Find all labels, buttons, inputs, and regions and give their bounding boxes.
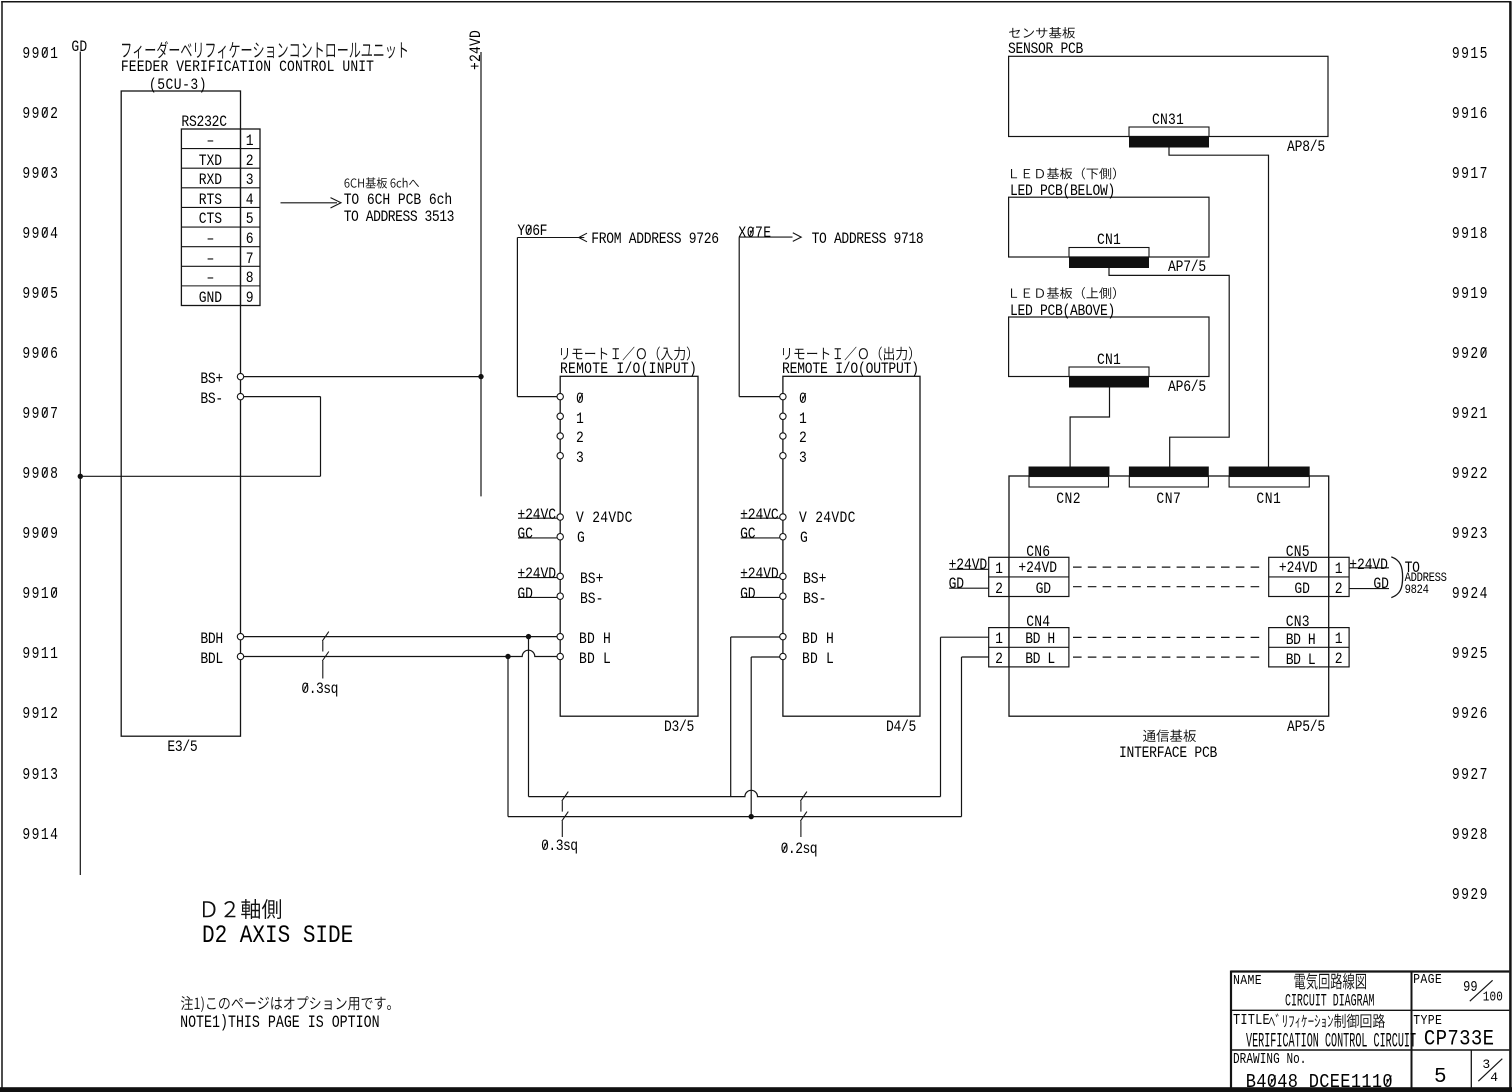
connector label CN1 below	[1097, 232, 1121, 248]
wire gauge mark 0.2sq bottom	[800, 792, 807, 837]
connector label CN2	[1056, 491, 1081, 507]
wire gauge label 0.2sq bottom	[781, 841, 818, 857]
pin label BD L D3/5	[579, 651, 611, 667]
pin +24VD circle D3/5	[557, 573, 563, 579]
connector CN4 table	[989, 628, 1069, 667]
node address 9927	[1452, 766, 1489, 783]
wire underline +24VC D4/5	[741, 517, 780, 519]
connector CN31 white	[1129, 127, 1209, 137]
title block left edge	[1230, 971, 1232, 1088]
wire 9908 horizontal GD to BS-	[80, 475, 320, 477]
node address 9904	[22, 225, 59, 242]
wire CN1 above to CN2	[1070, 388, 1109, 467]
title block row divider 1	[1231, 1009, 1509, 1011]
connector CN5 table	[1269, 557, 1349, 596]
page border right edge	[1509, 1, 1512, 1092]
wire BD H bus line	[529, 790, 941, 796]
node address 9918	[1452, 225, 1489, 242]
sheet number slash 3/4	[1478, 1059, 1502, 1082]
connector CN2 white	[1029, 477, 1109, 488]
junction BDH	[526, 634, 531, 639]
text TO	[1405, 560, 1420, 576]
dashed wire +24VD CN6-CN5	[1073, 566, 1264, 568]
RS232C pin number 8	[246, 270, 254, 286]
text note 1 this page is option (Japanese)	[181, 996, 391, 1012]
page border left edge	[1, 1, 3, 1092]
sensor PCB box	[1009, 56, 1328, 136]
text LED PCB(ABOVE)	[1010, 303, 1115, 319]
pin 0 circle D3/5	[557, 393, 563, 399]
connector CN2 black	[1029, 467, 1110, 477]
RS232C row line 8	[181, 285, 260, 287]
text 9824	[1405, 584, 1429, 597]
pin label 2 of D3/5	[576, 430, 584, 446]
text feeder verification control unit (Japanese)	[122, 41, 407, 59]
wire gauge label 0.3sq	[301, 681, 338, 697]
page border top edge	[1, 1, 1511, 3]
text TO 6CH PCB 6ch	[344, 192, 452, 208]
wire Y06F horizontal	[517, 237, 584, 239]
arrowhead from address 9726	[579, 233, 587, 242]
connector CN3 table	[1269, 628, 1349, 667]
text SENSOR PCB	[1008, 41, 1083, 57]
CN3 pin 1 name BD H	[1286, 632, 1316, 648]
title block text TITLE	[1233, 1013, 1270, 1028]
text LED PCB below (Japanese)	[1011, 168, 1116, 180]
CN6 pin 2 name GD	[1036, 581, 1051, 597]
node address 9929	[1452, 886, 1489, 903]
slashed zero in 9901	[43, 47, 48, 56]
pin label BS+ D3/5	[580, 571, 603, 587]
net label GD at D3/5	[517, 586, 532, 602]
net label +24VD at D3/5	[517, 566, 556, 582]
pin label BD H D3/5	[579, 631, 611, 647]
RS232C pin name CTS row 5	[199, 211, 222, 227]
CN4 row divider	[989, 646, 1069, 648]
node address 9901	[22, 45, 59, 62]
node address 9911	[22, 645, 59, 662]
connector CN1 below white	[1069, 248, 1149, 258]
interface PCB box AP5/5	[1009, 476, 1329, 716]
RS232C pin number 4	[246, 192, 254, 208]
RS232C row line 1	[181, 148, 260, 150]
page number slash 99/100	[1470, 980, 1493, 1001]
wire BD L D4/5 drop	[750, 657, 752, 817]
net label GC at D4/5	[740, 526, 755, 542]
CN6 column divider	[1008, 557, 1010, 596]
slashed zero in DCEE1110	[1385, 1076, 1391, 1086]
connector CN7 black	[1129, 467, 1209, 477]
connector CN7 white	[1129, 477, 1208, 488]
node address 9922	[1452, 465, 1489, 482]
slashed zero in 0.2sq bottom	[783, 844, 787, 853]
junction BS+ +24VD	[478, 374, 483, 379]
node address 9913	[22, 766, 59, 783]
box label AP8/5	[1287, 139, 1325, 155]
remote I/O input box D3/5	[560, 376, 698, 716]
CN4 pin 2 number	[995, 651, 1003, 667]
page border bottom bar	[0, 1087, 1512, 1092]
slashed zero in 9910	[52, 588, 57, 597]
box label AP6/5	[1168, 379, 1206, 395]
slashed zero in 9905	[43, 287, 48, 296]
net label X07E	[738, 225, 771, 241]
RS232C pin number 7	[246, 251, 254, 267]
wire underline GD D4/5	[741, 596, 780, 598]
RS232C row line 4	[181, 206, 260, 208]
title block text CIRCUIT DIAGRAM	[1285, 993, 1375, 1011]
CN4 pin 1 name BD H	[1025, 631, 1055, 647]
node address 9909	[22, 525, 59, 542]
node address 9917	[1452, 165, 1489, 182]
CN3 row divider	[1269, 646, 1349, 648]
text LED PCB above (Japanese)	[1011, 287, 1116, 299]
pin BS- on E3/5	[237, 393, 243, 399]
slashed zero pin 0 D3/5	[578, 393, 582, 402]
RS232C pin name – row 8	[207, 270, 215, 286]
pin label BDH	[200, 631, 223, 647]
connector label CN5	[1286, 544, 1310, 560]
pin GD circle D4/5	[780, 593, 786, 599]
arrow line to 6CH PCB	[281, 202, 338, 204]
RS232C row line 7	[181, 265, 260, 267]
node address 9926	[1452, 705, 1489, 722]
node address 9923	[1452, 525, 1489, 542]
title block text NAME	[1233, 974, 1262, 988]
pin +24VC circle D4/5	[780, 514, 786, 520]
wire BS- vertical	[320, 397, 322, 477]
wire Y06F vertical	[516, 238, 518, 397]
connector label CN1 interface	[1256, 491, 1281, 507]
title block text DRAWING No.	[1233, 1054, 1307, 1068]
CN5 column divider	[1328, 557, 1330, 596]
slashed zero in 9907	[43, 408, 48, 417]
wire underline GC D3/5	[518, 537, 557, 539]
RS232C pin name – row 6	[207, 231, 215, 247]
pin label BS- D4/5	[803, 591, 826, 607]
pin label G	[577, 530, 585, 546]
title block row divider 2	[1231, 1049, 1509, 1051]
wire underline +24VD D4/5	[741, 577, 780, 579]
title block text TYPE	[1413, 1014, 1442, 1028]
node address 9928	[1452, 826, 1489, 843]
wire CN1 below to CN7	[1109, 268, 1229, 467]
CN5 row divider	[1269, 576, 1349, 578]
slashed zero pin 0 D4/5	[801, 393, 805, 402]
net label GD at D4/5	[740, 586, 755, 602]
title block sheet divider	[1470, 1050, 1472, 1088]
RS232C row line 2	[181, 167, 260, 169]
LED PCB above box	[1009, 317, 1209, 377]
CN3 column divider	[1328, 628, 1330, 667]
dashed wire BD L CN4-CN3	[1073, 656, 1264, 658]
net label GC at D3/5	[517, 526, 532, 542]
text NOTE1)THIS PAGE IS OPTION	[180, 1014, 380, 1031]
pin label 1 of D4/5	[799, 411, 807, 427]
net label +24VD vertical	[468, 29, 484, 69]
connector CN1 white	[1229, 477, 1309, 488]
pin BDH on E3/5	[237, 633, 243, 639]
connector label CN3	[1286, 614, 1310, 630]
pin GC circle D4/5	[780, 534, 786, 540]
wire BDH drop	[528, 637, 530, 797]
wire underline GD D3/5	[518, 596, 557, 598]
net label +24VC at D3/5	[517, 507, 556, 523]
RS232C table divider	[240, 129, 242, 306]
wire BD H D4/5 stub	[731, 636, 780, 638]
text D2 AXIS SIDE	[202, 924, 353, 949]
wire Y06F to pin0	[517, 396, 557, 398]
pin 2 circle D4/5	[780, 433, 786, 439]
pin BS+ on E3/5	[237, 373, 243, 379]
box label AP7/5	[1168, 259, 1206, 275]
wire BD H D4/5 drop	[730, 637, 732, 797]
box label D4/5	[886, 719, 916, 735]
wire +24VD into CN6 pin1	[949, 568, 989, 570]
title block sheet number 5	[1434, 1067, 1447, 1088]
text remote I/O input (Japanese)	[561, 347, 690, 361]
connector CN31 black	[1129, 137, 1209, 148]
slashed zero in 9903	[43, 167, 48, 176]
pin 1 circle D4/5	[780, 413, 786, 419]
wire BDL drop	[507, 657, 509, 817]
wire GD out of CN5 pin2	[1349, 588, 1389, 590]
connector label CN7	[1156, 491, 1181, 507]
wire underline GC D4/5	[741, 537, 780, 539]
LED PCB below box	[1009, 197, 1209, 257]
pin label BS- D3/5	[580, 591, 603, 607]
wire X07E horizontal	[739, 236, 792, 238]
text TO ADDRESS 9718	[812, 231, 924, 247]
pin GD circle D3/5	[557, 593, 563, 599]
text LED PCB(BELOW)	[1010, 183, 1115, 199]
slashed zero in 9908	[43, 468, 48, 477]
text INTERFACE PCB	[1119, 745, 1217, 761]
arrowhead to 6CH PCB	[331, 198, 342, 208]
connector label CN6	[1026, 544, 1050, 560]
pin 3 circle D3/5	[557, 453, 563, 459]
pin label V 24VDC	[576, 510, 633, 526]
pin 0 circle D4/5	[780, 393, 786, 399]
connector CN1 above white	[1069, 367, 1149, 377]
node address 9912	[22, 705, 59, 722]
text 6CH PCB 6ch (Japanese)	[345, 177, 420, 188]
slashed zero in 9906	[43, 347, 48, 356]
RS232C pin number 5	[246, 211, 254, 227]
RS232C pin number 6	[246, 231, 254, 247]
CN5 pin 1 number	[1335, 561, 1343, 577]
CN4 pin 2 name BD L	[1025, 651, 1055, 667]
text REMOTE I/O(INPUT)	[560, 361, 697, 377]
title block drawing number B4048 DCEE1110	[1246, 1073, 1393, 1092]
RS232C row line 5	[181, 226, 260, 228]
connector CN6 table	[989, 557, 1069, 596]
title block sheet 4	[1490, 1071, 1498, 1084]
CN4 column divider	[1008, 628, 1010, 667]
wire BD L riser to CN4	[961, 657, 963, 817]
wire CN31 to CN1 interface	[1169, 148, 1269, 467]
pin label 1 of D3/5	[576, 411, 584, 427]
RS232C pin name GND row 9	[199, 290, 222, 306]
pin label 3 of D3/5	[576, 450, 584, 466]
dashed wire BD H CN4-CN3	[1073, 636, 1264, 638]
node address 9906	[22, 345, 59, 362]
RS232C pin name – row 1	[207, 133, 215, 149]
node address 9902	[22, 105, 59, 122]
pin label 0 of D4/5	[799, 391, 807, 407]
title block circuit diagram (Japanese)	[1295, 973, 1367, 990]
slashed zero in B4048	[1270, 1076, 1276, 1086]
pin 1 circle D3/5	[557, 413, 563, 419]
wire underline +24VD D3/5	[518, 577, 557, 579]
text TO ADDRESS 3513	[344, 209, 454, 225]
arrowhead to address 9718	[793, 233, 801, 242]
title block text PAGE	[1413, 973, 1442, 987]
wire gauge mark 0.3sq	[322, 632, 329, 679]
junction GD at 9908	[78, 474, 83, 479]
wire +24VD vertical	[480, 52, 482, 496]
title block column divider	[1411, 971, 1413, 1088]
wire BS+ horizontal	[244, 376, 481, 378]
wire BD H riser to CN4	[940, 637, 942, 796]
node address 9915	[1452, 45, 1489, 62]
pin label BS+ D4/5	[803, 571, 826, 587]
wire gauge label 0.3sq bottom	[541, 838, 578, 854]
junction BDL	[505, 654, 510, 659]
text D2 axis side (Japanese)	[203, 899, 281, 919]
CN6 pin 1 number	[995, 561, 1003, 577]
RS232C connector table	[181, 129, 260, 306]
box label AP5/5	[1287, 719, 1325, 735]
slashed zero in 9920	[1481, 347, 1486, 356]
node address 9908	[22, 465, 59, 482]
pin label 0 of D3/5	[576, 391, 584, 407]
text REMOTE I/O(OUTPUT)	[782, 361, 919, 377]
RS232C pin number 9	[246, 290, 254, 306]
CN3 pin 2 name BD L	[1286, 652, 1316, 668]
wire +24VD out of CN5 pin1	[1349, 567, 1389, 569]
RS232C pin number 1	[246, 133, 254, 149]
node address 9903	[22, 165, 59, 182]
CN6 row divider	[989, 576, 1069, 578]
wire BD L D4/5 stub	[751, 656, 779, 658]
RS232C pin name – row 7	[207, 251, 215, 267]
CN3 pin 1 number	[1335, 631, 1343, 647]
control unit box E3/5	[121, 91, 240, 736]
title block text VERIFICATION CONTROL CIRCUIT	[1246, 1032, 1416, 1053]
pin BD H circle D3/5	[557, 633, 563, 639]
pin label BDL	[200, 651, 223, 667]
dashed wire GD CN6-CN5	[1073, 586, 1264, 588]
node address 9920	[1452, 345, 1489, 362]
CN5 pin 2 name GD	[1294, 581, 1309, 597]
connector label CN31	[1152, 112, 1184, 128]
text FEEDER VERIFICATION CONTROL UNIT	[121, 59, 374, 75]
wire BS- horizontal	[244, 396, 321, 398]
RS232C pin name RTS row 4	[199, 192, 222, 208]
text ADDRESS	[1405, 572, 1447, 585]
net label GD left of CN6	[949, 576, 964, 592]
RS232C row line 3	[181, 187, 260, 189]
node address 9916	[1452, 105, 1489, 122]
RS232C row line 6	[181, 246, 260, 248]
slashed zero in X07E	[749, 227, 753, 236]
CN6 pin 2 number	[995, 581, 1003, 597]
slashed zero in 0.3sq bottom	[543, 841, 547, 850]
pin GC circle D3/5	[557, 534, 563, 540]
pin label 3 of D4/5	[799, 450, 807, 466]
net label +24VC at D4/5	[740, 507, 779, 523]
net label GD right of CN5	[1373, 576, 1388, 592]
title block page number 100	[1483, 992, 1503, 1005]
CN4 pin 1 number	[995, 631, 1003, 647]
RS232C pin name RXD row 3	[199, 172, 222, 188]
connector RS232C label	[181, 114, 226, 130]
connector label CN4	[1026, 614, 1050, 630]
wire underline +24VC D3/5	[518, 517, 557, 519]
pin label G out	[800, 530, 808, 546]
title block top edge	[1231, 970, 1509, 972]
slashed zero in 9909	[43, 528, 48, 537]
text FROM ADDRESS 9726	[591, 231, 719, 247]
pin 2 circle D3/5	[557, 433, 563, 439]
slashed zero in 9902	[43, 107, 48, 116]
pin label 2 of D4/5	[799, 430, 807, 446]
node address 9914	[22, 826, 59, 843]
connector CN1 above black	[1069, 377, 1149, 388]
node address 9921	[1452, 405, 1489, 422]
text sensor PCB (Japanese)	[1009, 27, 1075, 39]
node address 9907	[22, 405, 59, 422]
brace to address 9824	[1391, 557, 1402, 598]
wire BD L bus line	[508, 816, 962, 818]
wire BD H into CN4 pin1	[941, 636, 989, 638]
wire BDH E3/5 to D3/5	[244, 636, 557, 638]
pin BDL on E3/5	[237, 653, 243, 659]
text remote I/O output (Japanese)	[783, 347, 912, 361]
connector CN1 black	[1229, 467, 1310, 477]
RS232C pin number 3	[246, 172, 254, 188]
CN5 pin 2 number	[1335, 581, 1343, 597]
CN5 pin 1 name +24VD	[1279, 560, 1318, 576]
CN6 pin 1 name +24VD	[1018, 560, 1057, 576]
net label +24VD at D4/5	[740, 566, 779, 582]
pin +24VD circle D4/5	[780, 573, 786, 579]
pin label BS+	[200, 371, 223, 387]
RS232C pin name TXD row 2	[199, 153, 222, 169]
net label +24VD left of CN6	[949, 557, 988, 573]
text interface PCB (Japanese)	[1143, 730, 1196, 743]
junction BD L bus	[749, 814, 754, 819]
net label Y06F	[517, 223, 547, 239]
wire BD L into CN4 pin2	[962, 656, 989, 658]
pin label BD L D4/5	[802, 651, 834, 667]
pin BD L circle D4/5	[780, 653, 786, 659]
pin label BS-	[200, 391, 223, 407]
title block sheet 3	[1482, 1058, 1490, 1071]
wire GD vertical	[79, 52, 81, 876]
box label E3/5	[167, 739, 197, 755]
text (5CU-3)	[149, 77, 207, 93]
net label GD	[71, 39, 87, 55]
pin label BD H D4/5	[802, 631, 834, 647]
wire BDL E3/5 to D3/5 with hop	[244, 650, 557, 656]
remote I/O output box D4/5	[783, 376, 920, 716]
connector CN1 below black	[1069, 257, 1149, 268]
pin BD L circle D3/5	[557, 653, 563, 659]
wire X07E vertical	[738, 237, 740, 397]
title block page number 99	[1463, 980, 1478, 995]
